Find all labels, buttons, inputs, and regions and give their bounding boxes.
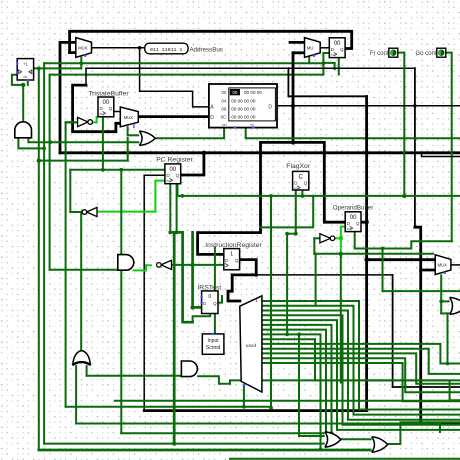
svg-text:00: 00 <box>232 90 238 95</box>
svg-text:en: en <box>166 179 170 183</box>
svg-text:D: D <box>210 115 214 121</box>
svg-text:en: en <box>347 227 351 231</box>
svg-text:IRSTest: IRSTest <box>197 284 221 291</box>
svg-text:AddressBus: AddressBus <box>190 47 223 54</box>
svg-text:00 00 00 00: 00 00 00 00 <box>231 106 256 111</box>
svg-text:en: en <box>331 53 335 57</box>
svg-text:08: 08 <box>221 106 227 111</box>
svg-text:en: en <box>100 112 104 116</box>
svg-text:011 11011 1: 011 11011 1 <box>150 47 182 53</box>
svg-text:00 00 00 00: 00 00 00 00 <box>231 98 256 103</box>
svg-text:1: 1 <box>230 251 233 257</box>
svg-text:00: 00 <box>221 90 227 95</box>
svg-text:D: D <box>268 105 272 111</box>
svg-text:Input: Input <box>208 338 220 344</box>
svg-text:Q: Q <box>304 181 308 186</box>
svg-text:Scrmd: Scrmd <box>206 345 221 351</box>
svg-text:Q: Q <box>340 47 344 52</box>
svg-text:Q: Q <box>235 258 239 263</box>
svg-text:D: D <box>203 301 206 306</box>
svg-text:TristateBuffer: TristateBuffer <box>88 90 129 97</box>
svg-text:MUX: MUX <box>78 45 88 50</box>
svg-text:D: D <box>225 258 228 263</box>
svg-text:+1: +1 <box>23 61 28 66</box>
svg-text:FlagXor: FlagXor <box>286 163 311 170</box>
svg-text:Fr cont: Fr cont <box>370 51 389 57</box>
svg-text:0C: 0C <box>221 115 228 120</box>
svg-text:04: 04 <box>221 98 227 103</box>
svg-text:sel: sel <box>222 123 227 127</box>
svg-text:00 00 00 00: 00 00 00 00 <box>231 115 256 120</box>
svg-text:used: used <box>246 343 257 349</box>
svg-text:MU: MU <box>307 45 314 50</box>
svg-text:PC Register: PC Register <box>156 156 193 163</box>
svg-text:Q: Q <box>213 301 217 306</box>
svg-text:OperandBuffer: OperandBuffer <box>333 205 373 212</box>
svg-text:00 00 00: 00 00 00 <box>244 90 262 95</box>
svg-text:en: en <box>294 186 298 190</box>
svg-text:InstructionRegister: InstructionRegister <box>205 242 262 249</box>
svg-text:0: 0 <box>208 294 211 300</box>
svg-text:Q: Q <box>109 106 113 111</box>
svg-text:MUX: MUX <box>124 115 134 120</box>
svg-text:MUX: MUX <box>438 263 448 268</box>
svg-text:ctr: ctr <box>23 75 28 79</box>
svg-text:Go cont: Go cont <box>415 51 436 57</box>
svg-text:Q: Q <box>356 221 360 226</box>
svg-text:Q: Q <box>176 173 180 178</box>
